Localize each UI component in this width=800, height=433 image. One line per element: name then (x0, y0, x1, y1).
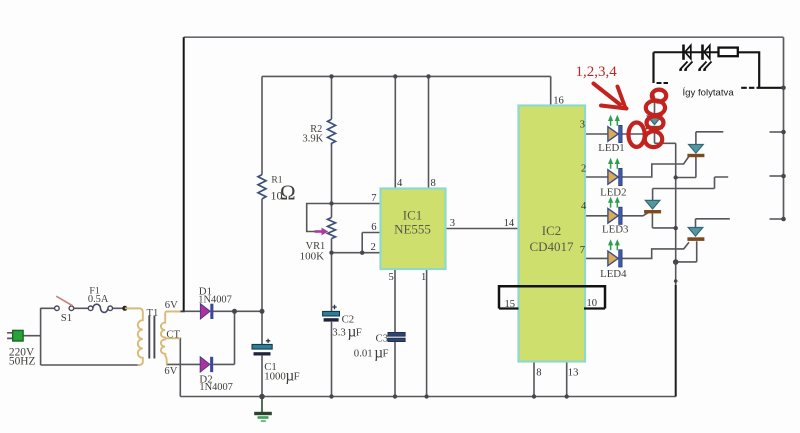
text IC2 pin numbers (504, 96, 597, 379)
svg-text:1N4007: 1N4007 (199, 382, 232, 393)
svg-text:LED4: LED4 (600, 268, 627, 280)
svg-text:4: 4 (581, 201, 587, 212)
diode D1 (200, 304, 213, 319)
wire pin5 C3 branch (394, 269, 396, 397)
wire LED1 to SCR1 gate (622, 128, 655, 134)
wire CT lead (179, 337, 182, 339)
svg-text:13: 13 (568, 368, 579, 379)
LED4 (608, 239, 622, 267)
wire pin3 to pin14 (445, 228, 519, 230)
svg-text:IC1: IC1 (403, 208, 423, 223)
mains plug connector (7, 330, 23, 341)
svg-text:LED1: LED1 (598, 142, 624, 154)
thyristor SCR2 (687, 145, 704, 158)
text CT (166, 330, 180, 341)
text C2 3.3uF (332, 314, 361, 341)
wire IC2 pin8 pin13 drops (534, 362, 567, 397)
svg-text:7: 7 (580, 245, 585, 256)
svg-text:LED2: LED2 (600, 187, 626, 199)
svg-text:IC2: IC2 (542, 223, 562, 238)
svg-text:3.9K: 3.9K (302, 134, 323, 145)
svg-text:3: 3 (580, 120, 585, 131)
text LED4 (600, 268, 627, 280)
svg-text:50HZ: 50HZ (9, 356, 36, 368)
red annotation 8 upper (646, 90, 666, 116)
red annotation 0 (629, 123, 645, 147)
text 6V bottom (164, 366, 177, 377)
text C1 1000uF (264, 361, 299, 385)
text VR1 100K (300, 241, 326, 262)
junction dot after fuse (122, 306, 127, 311)
wire SCR1 anode (654, 97, 656, 116)
wire D2 row (166, 363, 234, 365)
thyristor SCR4 (687, 228, 704, 241)
junction dots timer network (329, 201, 364, 255)
text F1 0.5A (88, 286, 109, 305)
thyristor SCR3 (644, 200, 661, 213)
svg-text:LED3: LED3 (602, 224, 628, 236)
junction dots supply bus (329, 74, 430, 78)
lamp LED symbol 1 (679, 45, 692, 71)
svg-text:6: 6 (371, 222, 376, 233)
svg-text:S1: S1 (61, 312, 72, 324)
svg-text:2: 2 (371, 242, 376, 253)
wire D1 D2 junction vertical (234, 311, 236, 364)
text LED2 (600, 187, 626, 199)
wire LED3 to SCR3 gate (622, 211, 650, 216)
svg-text:0.5A: 0.5A (88, 294, 109, 305)
wire IC2 pin7 stub to LED4 (585, 257, 608, 259)
svg-text:6V: 6V (165, 300, 178, 311)
svg-text:NE555: NE555 (394, 222, 431, 237)
text 6V top (165, 300, 178, 311)
svg-text:CT: CT (166, 330, 180, 341)
junction dots ground rail (259, 394, 569, 400)
svg-text:100K: 100K (300, 250, 325, 262)
wire pin1 drop (426, 269, 428, 397)
svg-text:F: F (383, 347, 389, 359)
wire LED4 to SCR4 gate (622, 242, 689, 258)
red annotation text 1,2,3,4 (576, 64, 618, 80)
svg-text:T1: T1 (147, 308, 159, 319)
text IC1 pin numbers (371, 178, 455, 283)
capacitor C2 (323, 305, 340, 322)
svg-text:CD4017: CD4017 (529, 239, 574, 254)
text Igy folytatva (683, 87, 735, 98)
wire pin2 pin6 tie (332, 233, 381, 253)
wire R1 branch (261, 76, 263, 396)
junction dots SCR bus (673, 175, 679, 283)
text 220V 50HZ (9, 346, 36, 367)
thyristor SCR1 (646, 116, 663, 129)
text IC1 NE555 (394, 208, 431, 237)
wire pin8 drop (428, 76, 430, 188)
wire mains loop (23, 308, 139, 365)
junction dots rectifier (232, 309, 265, 314)
svg-text:7: 7 (371, 193, 376, 204)
wire IC2 pin2 stub to LED2 (585, 176, 608, 178)
wire IC2 pin3 stub to LED1 (585, 133, 608, 135)
ground symbol (254, 397, 272, 423)
svg-text:16: 16 (553, 96, 564, 107)
wire bottom ground rail (180, 396, 675, 398)
red annotation 8 lower (645, 116, 664, 147)
op IC1 NE555 box (381, 189, 446, 270)
wire SCR2 anode stub (696, 132, 723, 144)
svg-text:6V: 6V (164, 366, 177, 377)
svg-text:10: 10 (587, 298, 598, 309)
junction dots right AC line (781, 86, 786, 222)
text LED1 (598, 142, 624, 154)
lamp resistor (719, 48, 738, 57)
wire CT drop (179, 339, 181, 397)
wire DC rail D1 row (184, 310, 263, 312)
wire pin4 drop (394, 76, 396, 188)
text R2 3.9K (302, 124, 323, 145)
svg-text:2: 2 (581, 164, 586, 175)
wire SCR3 cathode (652, 213, 675, 228)
wire SCR2 cathode (676, 156, 696, 178)
svg-text:F: F (356, 326, 362, 338)
wire LED2 to SCR2 gate (622, 157, 689, 178)
wire right stub row3 (770, 175, 784, 177)
wire secondary top lead (180, 310, 185, 312)
wire top supply bus (262, 75, 551, 77)
capacitor C1 (252, 339, 272, 356)
wire left black AC vertical (183, 37, 185, 311)
wire R2 VR1 C2 branch (331, 76, 333, 396)
resistor R2 (328, 119, 336, 147)
svg-text:5: 5 (389, 272, 394, 283)
svg-text:1N4007: 1N4007 (198, 294, 231, 305)
lamp string circuit top right (654, 52, 784, 99)
svg-text:Ω: Ω (280, 181, 296, 205)
text C3 0.01uF (354, 332, 389, 361)
svg-text:1000: 1000 (264, 371, 286, 383)
black box around pins 15 and 10 (499, 286, 605, 308)
wire right AC vertical (783, 37, 785, 219)
text IC2 CD4017 (529, 223, 574, 254)
lamp LED symbol 2 (698, 45, 711, 71)
svg-text:F: F (294, 371, 300, 383)
svg-text:C3: C3 (376, 332, 389, 344)
switch S1 (55, 296, 74, 310)
text S1 (61, 312, 72, 324)
text R1 10ohm (271, 175, 296, 205)
wire SCR cathode bus (675, 143, 677, 396)
svg-text:8: 8 (431, 178, 436, 189)
text T1 (147, 308, 159, 319)
text D2 1N4007 (199, 374, 232, 393)
fuse F1 (88, 304, 112, 312)
wire IC2 pin4 stub to LED3 (585, 215, 608, 217)
wire SCR4 cathode (676, 241, 697, 262)
text LED3 (602, 224, 628, 236)
svg-text:14: 14 (504, 218, 515, 229)
wire pin16 drop (550, 76, 552, 105)
resistor R1 (258, 175, 266, 199)
svg-text:4: 4 (397, 178, 403, 189)
svg-text:Így folytatva: Így folytatva (683, 87, 735, 98)
red annotation arrow (594, 84, 627, 109)
wire right stub row2 (770, 131, 784, 133)
capacitor C3 (388, 332, 405, 341)
svg-text:1,2,3,4: 1,2,3,4 (576, 64, 618, 80)
svg-text:1: 1 (421, 272, 426, 283)
text D1 1N4007 (198, 286, 231, 306)
wire pin7 and wiper (307, 204, 381, 232)
wire top AC line (184, 36, 784, 38)
wire SCR4 anode stub (696, 219, 730, 228)
wire right stub row4 (770, 218, 784, 220)
diode D2 (200, 357, 213, 372)
transformer T1 (125, 308, 181, 365)
potentiometer VR1 (315, 218, 336, 239)
wire SCR1 cathode (655, 130, 676, 144)
svg-text:0.01: 0.01 (354, 347, 373, 359)
svg-text:8: 8 (536, 368, 541, 379)
LED2 (608, 158, 622, 186)
svg-text:3: 3 (450, 218, 455, 229)
LED1 (608, 115, 622, 143)
LED3 (608, 197, 622, 225)
wire SCR3 anode stub (653, 177, 729, 200)
op IC2 CD4017 box (519, 106, 586, 362)
svg-text:3.3: 3.3 (332, 326, 346, 338)
